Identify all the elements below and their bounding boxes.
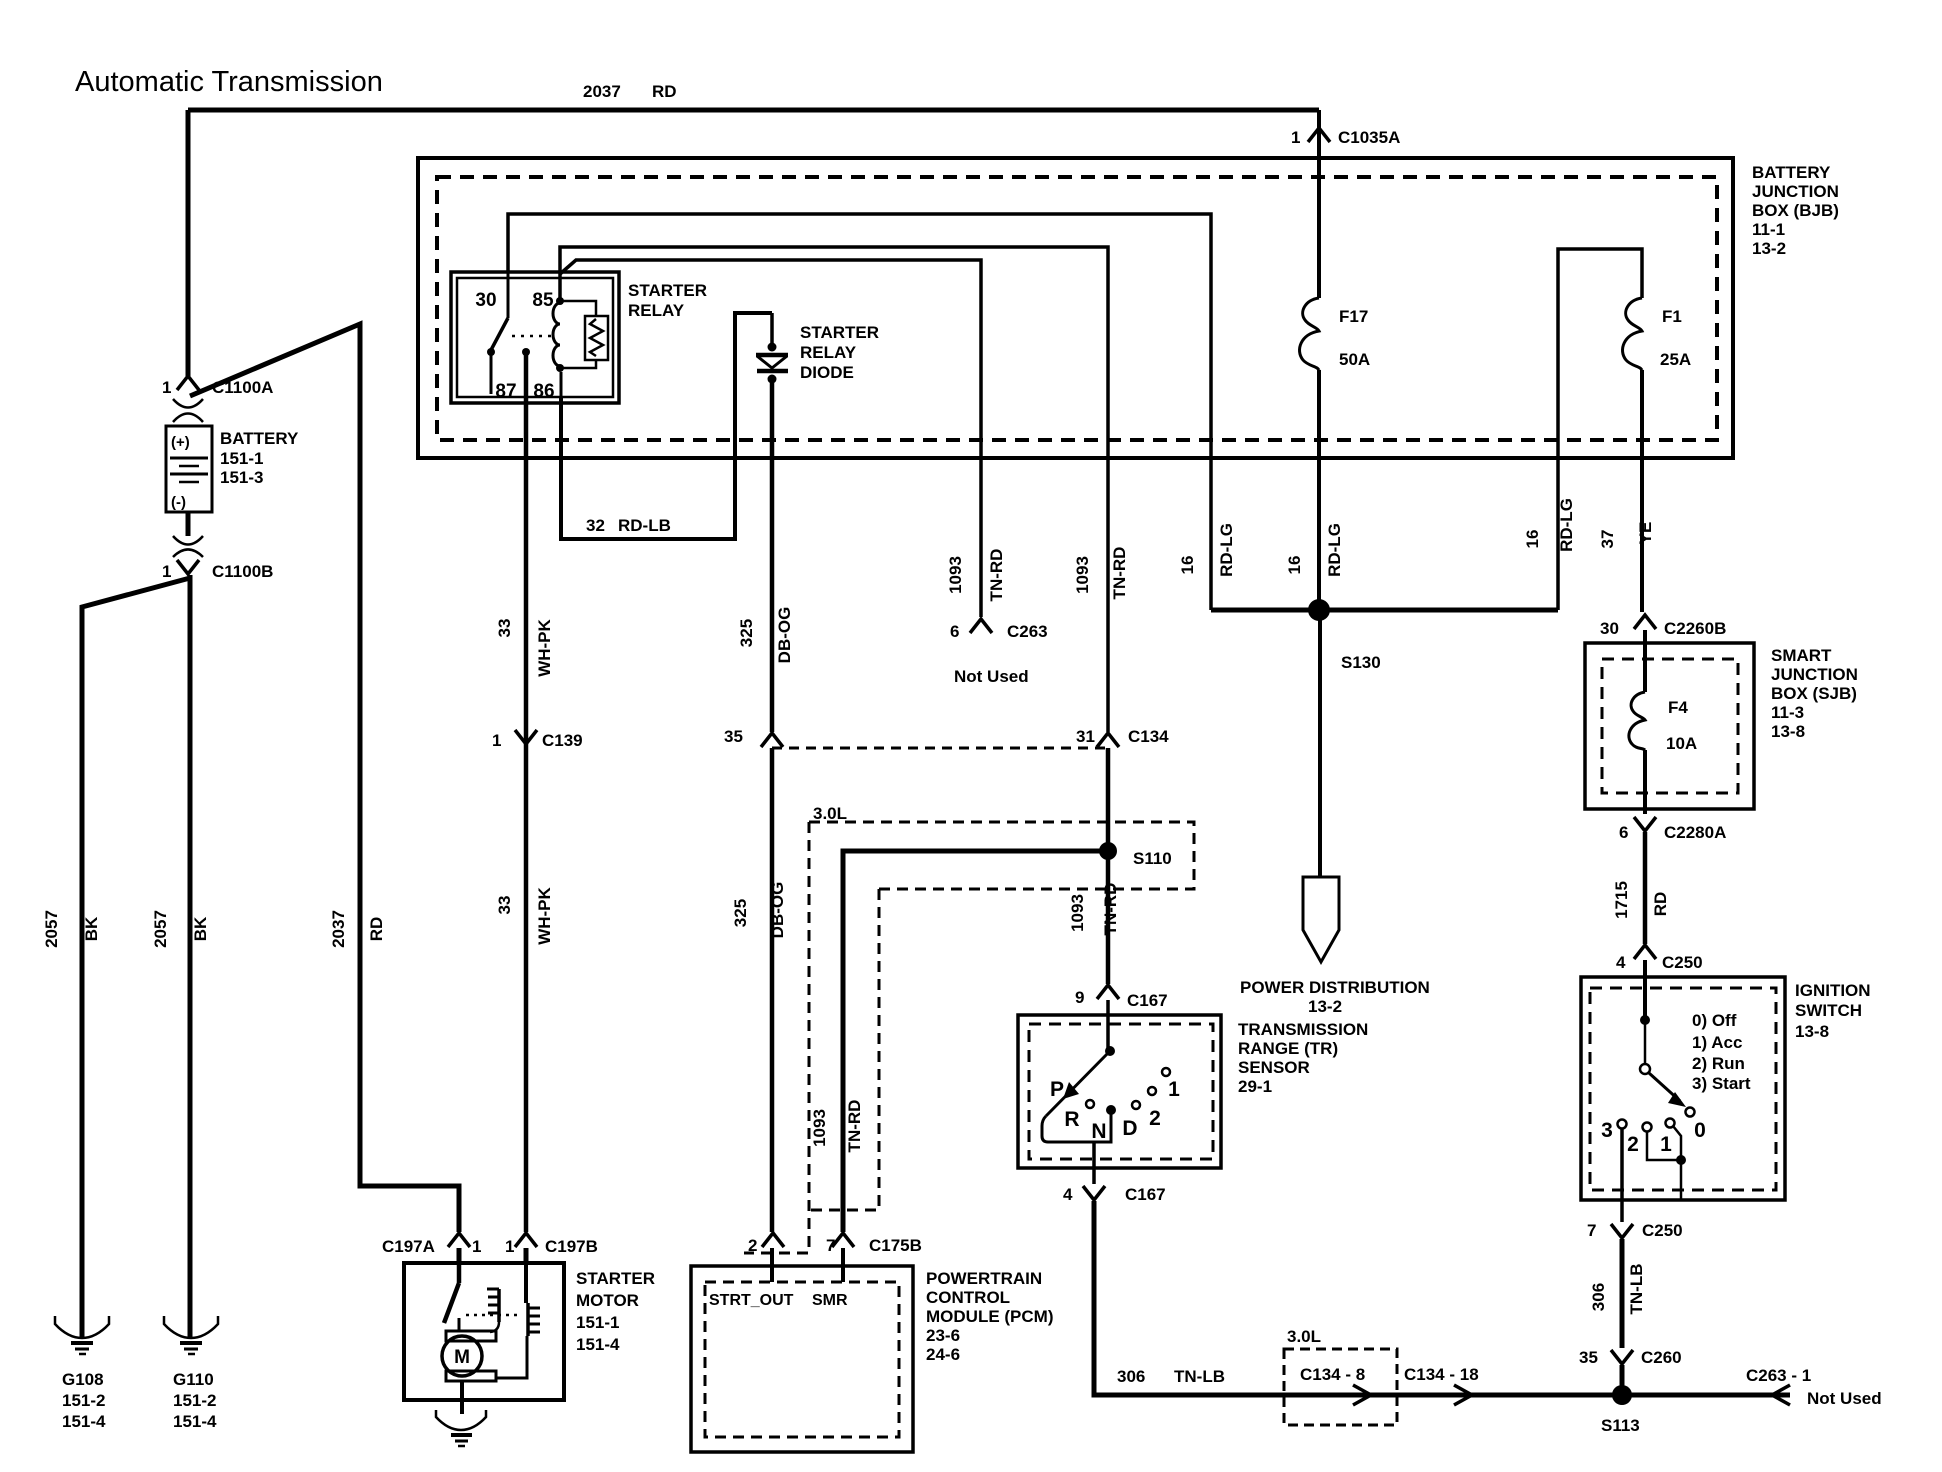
svg-text:C197B: C197B xyxy=(545,1237,598,1256)
svg-text:C167: C167 xyxy=(1125,1185,1166,1204)
svg-text:RANGE (TR): RANGE (TR) xyxy=(1238,1039,1338,1058)
fuse F4 10A xyxy=(1629,692,1697,753)
wire relay pin30 to S130 (net A) xyxy=(508,214,1211,610)
wire 2057 BK to G110 xyxy=(188,575,193,1337)
starter relay box xyxy=(451,272,619,403)
svg-text:85: 85 xyxy=(532,290,554,311)
svg-text:C167: C167 xyxy=(1127,991,1168,1010)
svg-text:DIODE: DIODE xyxy=(800,363,854,382)
label 306 TN-LB (horizontal) xyxy=(1117,1367,1225,1386)
splice S110 dashed box xyxy=(744,822,1194,1253)
svg-text:RD: RD xyxy=(1651,892,1670,917)
svg-text:(-): (-) xyxy=(171,494,186,511)
svg-text:C260: C260 xyxy=(1641,1348,1682,1367)
splice S110 dot xyxy=(1099,842,1117,860)
wire battery positive drop xyxy=(186,110,191,376)
svg-text:C1035A: C1035A xyxy=(1338,128,1400,147)
wire relay 85 branch to C263 (net C) xyxy=(560,260,981,617)
svg-text:1: 1 xyxy=(162,562,171,581)
svg-text:7: 7 xyxy=(826,1236,835,1255)
svg-text:1093: 1093 xyxy=(946,556,965,594)
svg-text:RD: RD xyxy=(367,917,386,942)
ignition jumper contacts 1-2 xyxy=(1647,1126,1686,1200)
label TRANSMISSION RANGE (TR) SENSOR 29-1 xyxy=(1238,1020,1368,1096)
svg-text:C175B: C175B xyxy=(869,1236,922,1255)
svg-text:35: 35 xyxy=(1579,1348,1598,1367)
svg-text:Not Used: Not Used xyxy=(954,667,1029,686)
svg-text:1093: 1093 xyxy=(1068,894,1087,932)
svg-text:2: 2 xyxy=(748,1236,757,1255)
svg-text:151-4: 151-4 xyxy=(62,1412,106,1431)
connector C175B pin 2 arrow xyxy=(748,1233,784,1255)
svg-text:D: D xyxy=(1122,1117,1137,1140)
relay coil xyxy=(553,297,564,372)
svg-text:32: 32 xyxy=(586,516,605,535)
svg-text:3.0L: 3.0L xyxy=(1287,1327,1321,1346)
svg-text:WH-PK: WH-PK xyxy=(535,618,554,676)
svg-text:BATTERY: BATTERY xyxy=(1752,163,1831,182)
svg-text:C263 - 1: C263 - 1 xyxy=(1746,1366,1811,1385)
ignition contact 2 xyxy=(1643,1123,1652,1132)
connector C134-8 dashed box xyxy=(1284,1349,1397,1425)
svg-text:S113: S113 xyxy=(1601,1416,1640,1435)
svg-text:SMR: SMR xyxy=(812,1292,848,1309)
svg-text:POWERTRAIN: POWERTRAIN xyxy=(926,1269,1042,1288)
wire F17 to S130 xyxy=(1317,370,1321,610)
svg-text:151-3: 151-3 xyxy=(220,468,263,487)
S130 junction bus xyxy=(1211,608,1558,613)
svg-text:RD-LB: RD-LB xyxy=(618,516,671,535)
label POWERTRAIN CONTROL MODULE (PCM) 23-6 24-6 xyxy=(926,1269,1053,1364)
connector C139 xyxy=(492,730,583,750)
svg-text:10A: 10A xyxy=(1666,734,1697,753)
svg-text:6: 6 xyxy=(950,622,959,641)
connector C167 pin 9 xyxy=(1075,985,1168,1010)
wire 2057 BK branch to G108 xyxy=(82,578,190,1337)
relay contact dot 87 xyxy=(522,348,530,356)
svg-text:S130: S130 xyxy=(1341,653,1381,672)
relay switch blade xyxy=(491,318,508,350)
svg-text:33: 33 xyxy=(495,896,514,915)
svg-text:33: 33 xyxy=(495,619,514,638)
svg-text:35: 35 xyxy=(724,727,743,746)
svg-text:SMART: SMART xyxy=(1771,646,1832,665)
TR sensor selector blade xyxy=(1046,1051,1110,1116)
wire C250 into ignition switch xyxy=(1643,960,1647,1017)
svg-text:BOX (SJB): BOX (SJB) xyxy=(1771,684,1857,703)
wire S130 to power distribution xyxy=(1318,610,1322,877)
wire 325 DB-OG diode to C134 xyxy=(770,381,775,732)
svg-text:C2260B: C2260B xyxy=(1664,619,1726,638)
wire 2037 RD to starter motor xyxy=(190,324,459,1232)
svg-text:SWITCH: SWITCH xyxy=(1795,1001,1862,1020)
svg-text:2037: 2037 xyxy=(329,910,348,948)
label POWER DISTRIBUTION 13-2 xyxy=(1240,978,1430,1016)
ignition switch box xyxy=(1581,977,1785,1200)
svg-text:IGNITION: IGNITION xyxy=(1795,981,1871,1000)
svg-text:STARTER: STARTER xyxy=(800,323,879,342)
svg-text:N: N xyxy=(1091,1120,1106,1143)
svg-text:11-1: 11-1 xyxy=(1752,220,1785,239)
label 16 RD-LG (left) xyxy=(1178,523,1236,577)
S130 junction dot xyxy=(1308,599,1330,621)
svg-text:Not Used: Not Used xyxy=(1807,1389,1882,1408)
svg-text:M: M xyxy=(454,1347,470,1368)
svg-text:POWER DISTRIBUTION: POWER DISTRIBUTION xyxy=(1240,978,1430,997)
label 1093 TN-RD (upper right) xyxy=(1073,547,1129,600)
fuse F1 25A xyxy=(1623,298,1692,370)
TR sensor N contact dot xyxy=(1106,1105,1116,1115)
starter solenoid switch blade xyxy=(444,1263,459,1323)
starter solenoid dotted actuation line xyxy=(466,1314,518,1317)
starter motor M xyxy=(442,1331,496,1381)
svg-text:30: 30 xyxy=(475,290,496,311)
connector C134 pin 35 arrow xyxy=(724,727,783,747)
svg-text:16: 16 xyxy=(1285,556,1304,575)
svg-text:86: 86 xyxy=(533,381,554,402)
wire starter motor to ground xyxy=(460,1381,464,1414)
connector C1100A xyxy=(162,376,273,422)
label 2037 RD (vertical) xyxy=(329,910,386,948)
ignition contact 1 xyxy=(1666,1119,1675,1128)
TR sensor contact D xyxy=(1132,1101,1140,1109)
wire 306 TN-LB TR sensor to S113 xyxy=(1094,1201,1790,1395)
svg-text:DB-OG: DB-OG xyxy=(775,607,794,664)
connector C1100B xyxy=(162,512,273,581)
svg-text:P: P xyxy=(1050,1078,1064,1101)
svg-text:29-1: 29-1 xyxy=(1238,1077,1272,1096)
connector C197A xyxy=(382,1233,481,1256)
svg-text:BOX (BJB): BOX (BJB) xyxy=(1752,201,1839,220)
svg-text:3) Start: 3) Start xyxy=(1692,1074,1751,1093)
svg-text:1: 1 xyxy=(505,1237,514,1256)
svg-text:325: 325 xyxy=(731,899,750,927)
svg-text:BK: BK xyxy=(82,916,101,941)
label 32 RD-LB xyxy=(586,516,671,535)
TR sensor contact R xyxy=(1086,1100,1094,1108)
label 2037 RD (top wire) xyxy=(583,82,677,101)
svg-text:13-8: 13-8 xyxy=(1795,1022,1829,1041)
label STARTER RELAY DIODE xyxy=(800,323,879,382)
svg-text:2037: 2037 xyxy=(583,82,621,101)
svg-text:Automatic Transmission: Automatic Transmission xyxy=(75,66,383,98)
svg-text:TN-LB: TN-LB xyxy=(1174,1367,1225,1386)
label 2057 BK (left) xyxy=(42,910,101,948)
wire 1093 TN-RD C134 to S110 xyxy=(1106,748,1111,851)
transmission range sensor box xyxy=(1018,1015,1221,1168)
ground G108 xyxy=(55,1316,109,1431)
svg-text:MOTOR: MOTOR xyxy=(576,1291,639,1310)
relay coil resistor xyxy=(560,301,608,368)
svg-text:G108: G108 xyxy=(62,1370,104,1389)
svg-text:306: 306 xyxy=(1589,1283,1608,1311)
svg-text:RD-LG: RD-LG xyxy=(1557,498,1576,552)
wire 325 DB-OG C134 to PCM xyxy=(770,748,775,1232)
svg-text:9: 9 xyxy=(1075,988,1084,1007)
svg-text:6: 6 xyxy=(1619,823,1628,842)
wire C175B stubs into PCM xyxy=(772,1248,843,1282)
svg-text:F1: F1 xyxy=(1662,307,1682,326)
svg-text:STARTER: STARTER xyxy=(628,281,707,300)
ignition wire to pivot xyxy=(1644,1020,1647,1064)
relay pin 87 stub xyxy=(490,352,493,394)
svg-text:1093: 1093 xyxy=(1073,556,1092,594)
relay contact dot 87a xyxy=(487,348,495,356)
svg-text:23-6: 23-6 xyxy=(926,1326,960,1345)
connector C175B pin 7 arrow xyxy=(826,1233,922,1255)
svg-text:4: 4 xyxy=(1063,1185,1073,1204)
svg-text:151-2: 151-2 xyxy=(62,1391,105,1410)
wire 2037 RD (top feed from battery to BJB) xyxy=(188,108,1319,113)
svg-text:13-8: 13-8 xyxy=(1771,722,1805,741)
connector C2280A xyxy=(1619,817,1726,842)
label 325 DB-OG (upper) xyxy=(737,607,794,664)
label 1715 RD xyxy=(1612,881,1670,919)
svg-text:G110: G110 xyxy=(173,1370,214,1389)
svg-text:1: 1 xyxy=(492,731,501,750)
starter solenoid contact stub xyxy=(458,1318,461,1331)
wire 306 TN-LB ignition to C260 xyxy=(1620,1239,1625,1348)
svg-text:1: 1 xyxy=(472,1237,481,1256)
svg-text:RD-LG: RD-LG xyxy=(1217,523,1236,577)
connector C134 pin 31 arrow xyxy=(1076,727,1169,747)
label 16 RD-LG (right) xyxy=(1523,498,1576,552)
splice S113 dot xyxy=(1612,1385,1632,1405)
svg-text:C2280A: C2280A xyxy=(1664,823,1726,842)
svg-text:F4: F4 xyxy=(1668,698,1688,717)
svg-text:CONTROL: CONTROL xyxy=(926,1288,1010,1307)
label STARTER RELAY xyxy=(628,281,707,320)
svg-text:S110: S110 xyxy=(1133,849,1172,868)
fuse F17 50A xyxy=(1300,298,1371,370)
battery junction box BJB outer xyxy=(418,158,1733,458)
wire 1093 TN-RD S110 to C167 xyxy=(1106,851,1111,984)
svg-text:RD-LG: RD-LG xyxy=(1325,523,1344,577)
svg-text:RELAY: RELAY xyxy=(628,301,685,320)
svg-text:24-6: 24-6 xyxy=(926,1345,960,1364)
svg-text:1: 1 xyxy=(1291,128,1300,147)
powertrain control module box xyxy=(691,1266,913,1452)
TR sensor contact 1 xyxy=(1162,1068,1170,1076)
ignition contact 3 xyxy=(1618,1120,1627,1129)
starter relay diode xyxy=(756,313,788,384)
svg-text:C197A: C197A xyxy=(382,1237,435,1256)
svg-text:3: 3 xyxy=(1601,1119,1613,1142)
wire C1035A to F17 xyxy=(1317,110,1321,298)
connector C1035A xyxy=(1291,128,1400,147)
wire C2260B into SJB xyxy=(1643,630,1647,692)
svg-text:1715: 1715 xyxy=(1612,881,1631,919)
label 2057 BK (right) xyxy=(151,910,210,948)
svg-text:151-1: 151-1 xyxy=(220,449,263,468)
svg-text:C250: C250 xyxy=(1642,1221,1683,1240)
svg-text:16: 16 xyxy=(1523,530,1542,549)
label 306 TN-LB (vertical) xyxy=(1589,1264,1646,1315)
svg-text:BK: BK xyxy=(191,916,210,941)
svg-text:2) Run: 2) Run xyxy=(1692,1054,1745,1073)
ignition contact labels 3 2 1 0 xyxy=(1601,1119,1706,1156)
wire S130 to F1 xyxy=(1558,249,1642,610)
wire S110 to PCM SMR xyxy=(843,851,1108,1232)
ignition feed dot xyxy=(1640,1015,1650,1025)
wire F1 to C2260B xyxy=(1640,370,1644,612)
wire ignition contact 3 down xyxy=(1620,1128,1624,1222)
connector C250 pin 4 xyxy=(1616,945,1703,972)
battery junction box BJB dashed xyxy=(437,177,1717,440)
connector C134 dashed line xyxy=(772,747,1105,750)
svg-text:4: 4 xyxy=(1616,953,1626,972)
wire C167 into TR sensor xyxy=(1106,1000,1110,1051)
svg-text:JUNCTION: JUNCTION xyxy=(1752,182,1839,201)
svg-text:1093: 1093 xyxy=(810,1109,829,1147)
starter solenoid winding right xyxy=(497,1263,540,1378)
svg-text:151-1: 151-1 xyxy=(576,1313,619,1332)
connector C263-1 end arrow xyxy=(1772,1385,1790,1405)
TR sensor pivot dot xyxy=(1105,1046,1115,1056)
svg-text:TN-RD: TN-RD xyxy=(1110,547,1129,600)
connector C167 pin 4 xyxy=(1063,1185,1166,1204)
ground (starter motor) xyxy=(436,1410,486,1446)
svg-text:JUNCTION: JUNCTION xyxy=(1771,665,1858,684)
svg-text:151-4: 151-4 xyxy=(576,1335,620,1354)
svg-text:C1100B: C1100B xyxy=(212,562,273,581)
TR sensor letters P R N D 1 2 xyxy=(1050,1078,1180,1143)
wire F4 to C2280A xyxy=(1643,750,1647,814)
TR sensor contact 2 xyxy=(1148,1087,1156,1095)
svg-text:R: R xyxy=(1064,1108,1079,1131)
label 1093 TN-RD (C263 drop) xyxy=(946,549,1006,602)
connector C197B xyxy=(505,1233,598,1256)
wire 33 WH-PK relay to starter xyxy=(524,352,529,1232)
svg-text:BATTERY: BATTERY xyxy=(220,429,299,448)
label 33 WH-PK (upper) xyxy=(495,618,554,676)
svg-text:(+): (+) xyxy=(171,434,190,451)
connector C134-8 pass-through arrow xyxy=(1353,1385,1371,1405)
svg-text:WH-PK: WH-PK xyxy=(535,886,554,944)
connector C134-18 pass-through arrow xyxy=(1454,1385,1472,1405)
label 1093 TN-RD (lower) xyxy=(1068,883,1120,936)
svg-text:F17: F17 xyxy=(1339,307,1368,326)
svg-text:TN-RD: TN-RD xyxy=(987,549,1006,602)
ignition position list xyxy=(1692,1011,1751,1093)
label 325 DB-OG (lower) xyxy=(731,882,787,939)
battery xyxy=(166,426,299,512)
connector C260 xyxy=(1579,1348,1682,1367)
ground G110 xyxy=(164,1316,218,1431)
connector C2260B xyxy=(1600,615,1726,638)
relay dotted actuation line xyxy=(512,335,552,338)
svg-text:STRT_OUT: STRT_OUT xyxy=(709,1292,794,1309)
svg-text:SENSOR: SENSOR xyxy=(1238,1058,1310,1077)
svg-text:11-3: 11-3 xyxy=(1771,703,1804,722)
svg-text:1: 1 xyxy=(1660,1133,1672,1156)
svg-text:37: 37 xyxy=(1598,530,1617,549)
svg-text:0) Off: 0) Off xyxy=(1692,1011,1737,1030)
svg-text:3.0L: 3.0L xyxy=(813,804,847,823)
label 33 WH-PK (lower) xyxy=(495,886,554,944)
label C263 - 1 Not Used xyxy=(1746,1366,1882,1408)
svg-text:87: 87 xyxy=(495,381,516,402)
svg-text:151-4: 151-4 xyxy=(173,1412,217,1431)
wire TR sensor N to C167 pin 4 xyxy=(1092,1142,1096,1184)
svg-text:0: 0 xyxy=(1694,1119,1706,1142)
wire 1715 RD xyxy=(1643,832,1648,944)
wire C197B stub into starter box xyxy=(524,1248,529,1263)
svg-text:2: 2 xyxy=(1149,1107,1161,1130)
svg-text:DB-OG: DB-OG xyxy=(768,882,787,939)
label STRT_OUT SMR xyxy=(709,1292,848,1309)
svg-text:151-2: 151-2 xyxy=(173,1391,216,1410)
svg-text:C263: C263 xyxy=(1007,622,1048,641)
svg-text:TRANSMISSION: TRANSMISSION xyxy=(1238,1020,1368,1039)
label SJB xyxy=(1771,646,1858,741)
svg-text:31: 31 xyxy=(1076,727,1095,746)
connector C250 pin 7 xyxy=(1587,1221,1683,1240)
label 37 YE xyxy=(1598,522,1655,549)
wire C260 to S113 xyxy=(1620,1365,1625,1395)
power distribution pointer xyxy=(1303,877,1339,962)
svg-text:TN-RD: TN-RD xyxy=(845,1100,864,1153)
relay pin 86 lead to 32 RD-LB xyxy=(560,372,563,397)
connector C263 pin 6 Not Used xyxy=(950,619,1048,686)
svg-text:1) Acc: 1) Acc xyxy=(1692,1033,1742,1052)
svg-text:25A: 25A xyxy=(1660,350,1691,369)
label IGNITION SWITCH 13-8 xyxy=(1795,981,1871,1041)
svg-text:50A: 50A xyxy=(1339,350,1370,369)
svg-text:2: 2 xyxy=(1627,1133,1639,1156)
svg-text:C134 - 18: C134 - 18 xyxy=(1404,1365,1479,1384)
TR sensor hook wire to N xyxy=(1042,1114,1111,1142)
wire C197A stub into starter box xyxy=(457,1248,462,1263)
svg-text:RELAY: RELAY xyxy=(800,343,857,362)
starter motor box xyxy=(404,1263,564,1400)
svg-text:1: 1 xyxy=(162,378,171,397)
label 1093 TN-RD (SMR leg) xyxy=(810,1100,864,1153)
svg-text:C134: C134 xyxy=(1128,727,1169,746)
svg-text:YE: YE xyxy=(1636,522,1655,545)
TR sensor blade arrowhead xyxy=(1063,1082,1079,1099)
wire 32 RD-LB relay 86 to diode xyxy=(561,313,772,539)
svg-text:RD: RD xyxy=(652,82,677,101)
svg-text:C139: C139 xyxy=(542,731,583,750)
svg-text:C250: C250 xyxy=(1662,953,1703,972)
ignition contact 0 xyxy=(1686,1108,1695,1117)
starter motor label xyxy=(576,1269,655,1354)
wire relay coil 85 to TR sensor (net B) xyxy=(560,247,1108,732)
svg-text:MODULE (PCM): MODULE (PCM) xyxy=(926,1307,1053,1326)
ignition rotor blade with arrow xyxy=(1649,1073,1686,1107)
svg-text:7: 7 xyxy=(1587,1221,1596,1240)
svg-text:1: 1 xyxy=(1168,1078,1180,1101)
svg-text:2057: 2057 xyxy=(151,910,170,948)
svg-text:13-2: 13-2 xyxy=(1752,239,1786,258)
starter solenoid winding left xyxy=(487,1289,499,1332)
svg-text:13-2: 13-2 xyxy=(1308,997,1342,1016)
svg-text:STARTER: STARTER xyxy=(576,1269,655,1288)
svg-text:30: 30 xyxy=(1600,619,1619,638)
relay pin 30 lead xyxy=(507,272,510,318)
ignition pivot xyxy=(1640,1064,1650,1074)
svg-text:325: 325 xyxy=(737,619,756,647)
smart junction box SJB xyxy=(1585,643,1754,809)
svg-text:TN-LB: TN-LB xyxy=(1627,1264,1646,1315)
svg-text:C134 - 8: C134 - 8 xyxy=(1300,1365,1365,1384)
svg-text:16: 16 xyxy=(1178,556,1197,575)
label 16 RD-LG (middle) xyxy=(1285,523,1344,577)
svg-text:TN-RD: TN-RD xyxy=(1101,883,1120,936)
label BJB xyxy=(1752,163,1839,258)
svg-text:306: 306 xyxy=(1117,1367,1145,1386)
